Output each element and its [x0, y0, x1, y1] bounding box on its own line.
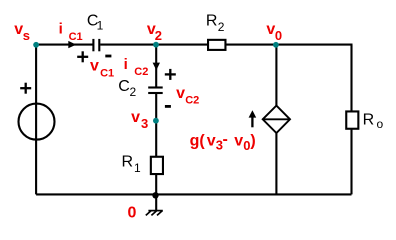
- wire top-right: v0 to top-right corner: [276, 44, 352, 46]
- wire bottom: [36, 193, 351, 195]
- svg-text:R: R: [363, 112, 375, 129]
- svg-text:2: 2: [218, 20, 225, 34]
- voltage source vs (circle): [19, 104, 55, 140]
- svg-text:C1: C1: [69, 31, 83, 43]
- svg-text:C2: C2: [185, 95, 199, 107]
- wire top-mid: C1 right plate to v0 node: [100, 44, 276, 46]
- svg-text:v: v: [90, 58, 99, 75]
- svg-text:o: o: [377, 117, 384, 131]
- svg-text:): ): [250, 132, 255, 149]
- wire top-left: vs node to C1 left plate: [36, 44, 93, 46]
- resistor R2 box: [208, 40, 225, 50]
- ground stem: [155, 194, 157, 210]
- wire v0 down to dep source and bottom wire: [275, 45, 277, 195]
- svg-text:C: C: [118, 78, 130, 95]
- node vs dot: [33, 42, 39, 48]
- current arrow i_c2: [153, 63, 160, 71]
- svg-text:v: v: [207, 132, 216, 149]
- svg-text:C2: C2: [134, 66, 148, 78]
- node v3 dot: [153, 118, 159, 124]
- current arrow i_c1: [68, 41, 76, 48]
- svg-text:v: v: [131, 109, 140, 126]
- svg-text:2: 2: [155, 28, 162, 43]
- vs plus sign: [20, 83, 31, 94]
- C2 plus sign: [165, 69, 176, 80]
- svg-text:v: v: [176, 85, 185, 102]
- diamond chord: [263, 118, 290, 120]
- svg-text:s: s: [23, 28, 30, 43]
- dependent source diamond g(v3-v0): [263, 106, 290, 133]
- svg-text:i: i: [124, 56, 128, 73]
- C2 minus sign: [165, 105, 171, 108]
- svg-text:R: R: [206, 13, 218, 30]
- resistor R0 box: [346, 111, 358, 128]
- svg-text:1: 1: [97, 19, 104, 33]
- node v0 dot: [273, 42, 279, 48]
- svg-text:v: v: [234, 132, 243, 149]
- node v2 dot: [153, 42, 159, 48]
- svg-text:C1: C1: [100, 68, 114, 80]
- resistor R1 box: [151, 157, 163, 174]
- svg-text:-: -: [223, 131, 228, 148]
- wire v2 down to C2 top plate: [155, 45, 157, 87]
- junction dot node 0: [152, 192, 158, 198]
- dep source reference arrow (up): [249, 110, 257, 127]
- C1 plus sign: [77, 51, 88, 62]
- svg-text:g(: g(: [190, 132, 206, 149]
- wire right vertical: [350, 45, 352, 195]
- wire C2 bottom plate to R1 and bottom wire: [155, 94, 157, 194]
- svg-text:i: i: [59, 21, 63, 38]
- ground symbol: [146, 211, 163, 216]
- svg-text:0: 0: [128, 205, 137, 222]
- svg-text:2: 2: [130, 85, 137, 99]
- wire left vertical: [35, 45, 37, 195]
- capacitor C1 plates: [93, 39, 99, 51]
- svg-text:0: 0: [275, 28, 282, 43]
- svg-text:R: R: [122, 153, 134, 170]
- capacitor C2 plates: [148, 88, 163, 94]
- svg-text:3: 3: [141, 116, 148, 131]
- svg-text:1: 1: [134, 161, 141, 175]
- C1 minus sign: [105, 55, 111, 58]
